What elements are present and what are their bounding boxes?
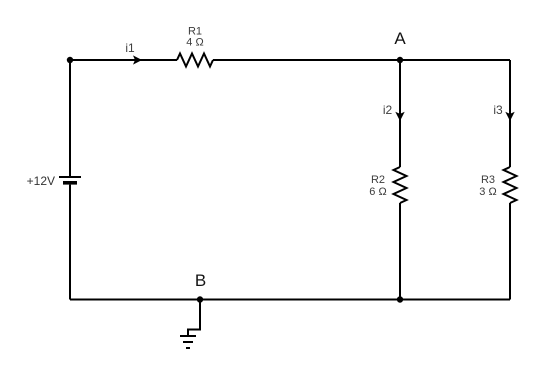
node: top-left junction dot xyxy=(67,57,73,63)
svg-text:R2: R2 xyxy=(371,174,385,186)
svg-text:6 Ω: 6 Ω xyxy=(369,186,386,198)
wire: node A down to R2 top lead xyxy=(399,60,401,167)
wire: bottom junction to bottom-right corner xyxy=(400,299,510,301)
wire: node B to bottom junction of R2 branch xyxy=(200,299,400,301)
wire: R2 bottom lead to bottom junction xyxy=(399,203,401,300)
wire: node B down to ground jog xyxy=(188,300,200,337)
wire: node A to top-right corner xyxy=(400,59,510,61)
resistor R3 xyxy=(504,167,517,203)
battery V1 +12V: short negative plate xyxy=(63,181,77,185)
svg-text:B: B xyxy=(195,271,206,290)
label R1 value 4 ohm xyxy=(186,26,203,49)
resistor R2 xyxy=(394,167,407,203)
arrowhead: current i3 direction (downward) xyxy=(505,112,514,121)
ground: top bar xyxy=(180,335,196,337)
ground: middle bar xyxy=(183,341,193,343)
wire: battery negative plate down to bottom-left corner xyxy=(69,185,71,300)
node B junction dot xyxy=(197,296,203,302)
arrowhead: current i2 direction (downward) xyxy=(395,112,404,121)
svg-text:A: A xyxy=(394,29,406,48)
ground: bottom bar xyxy=(186,347,190,349)
wire: top-left node down to battery positive plate xyxy=(69,60,71,177)
battery V1 +12V: long positive plate xyxy=(59,176,81,178)
wire: top-right corner down to R3 top lead xyxy=(509,60,511,167)
wire: R1 right lead to node A xyxy=(213,59,400,61)
wire: R3 bottom lead to bottom-right corner xyxy=(509,203,511,300)
resistor R1 xyxy=(177,54,213,67)
svg-text:4 Ω: 4 Ω xyxy=(186,37,203,49)
label R3 value 3 ohm xyxy=(479,174,496,198)
node A junction dot xyxy=(397,57,403,63)
wire: top-left node to R1 left lead xyxy=(70,59,177,61)
svg-text:3 Ω: 3 Ω xyxy=(479,186,496,198)
svg-text:+12V: +12V xyxy=(27,174,55,188)
label R2 value 6 ohm xyxy=(369,174,386,198)
wire: bottom-left corner to node B xyxy=(70,299,200,301)
svg-text:R3: R3 xyxy=(481,174,495,186)
node: R2-branch bottom junction dot xyxy=(397,296,403,302)
svg-text:i3: i3 xyxy=(493,103,503,117)
svg-text:i1: i1 xyxy=(125,41,135,55)
arrowhead: current i1 direction (rightward) xyxy=(133,55,142,64)
svg-text:i2: i2 xyxy=(383,103,393,117)
